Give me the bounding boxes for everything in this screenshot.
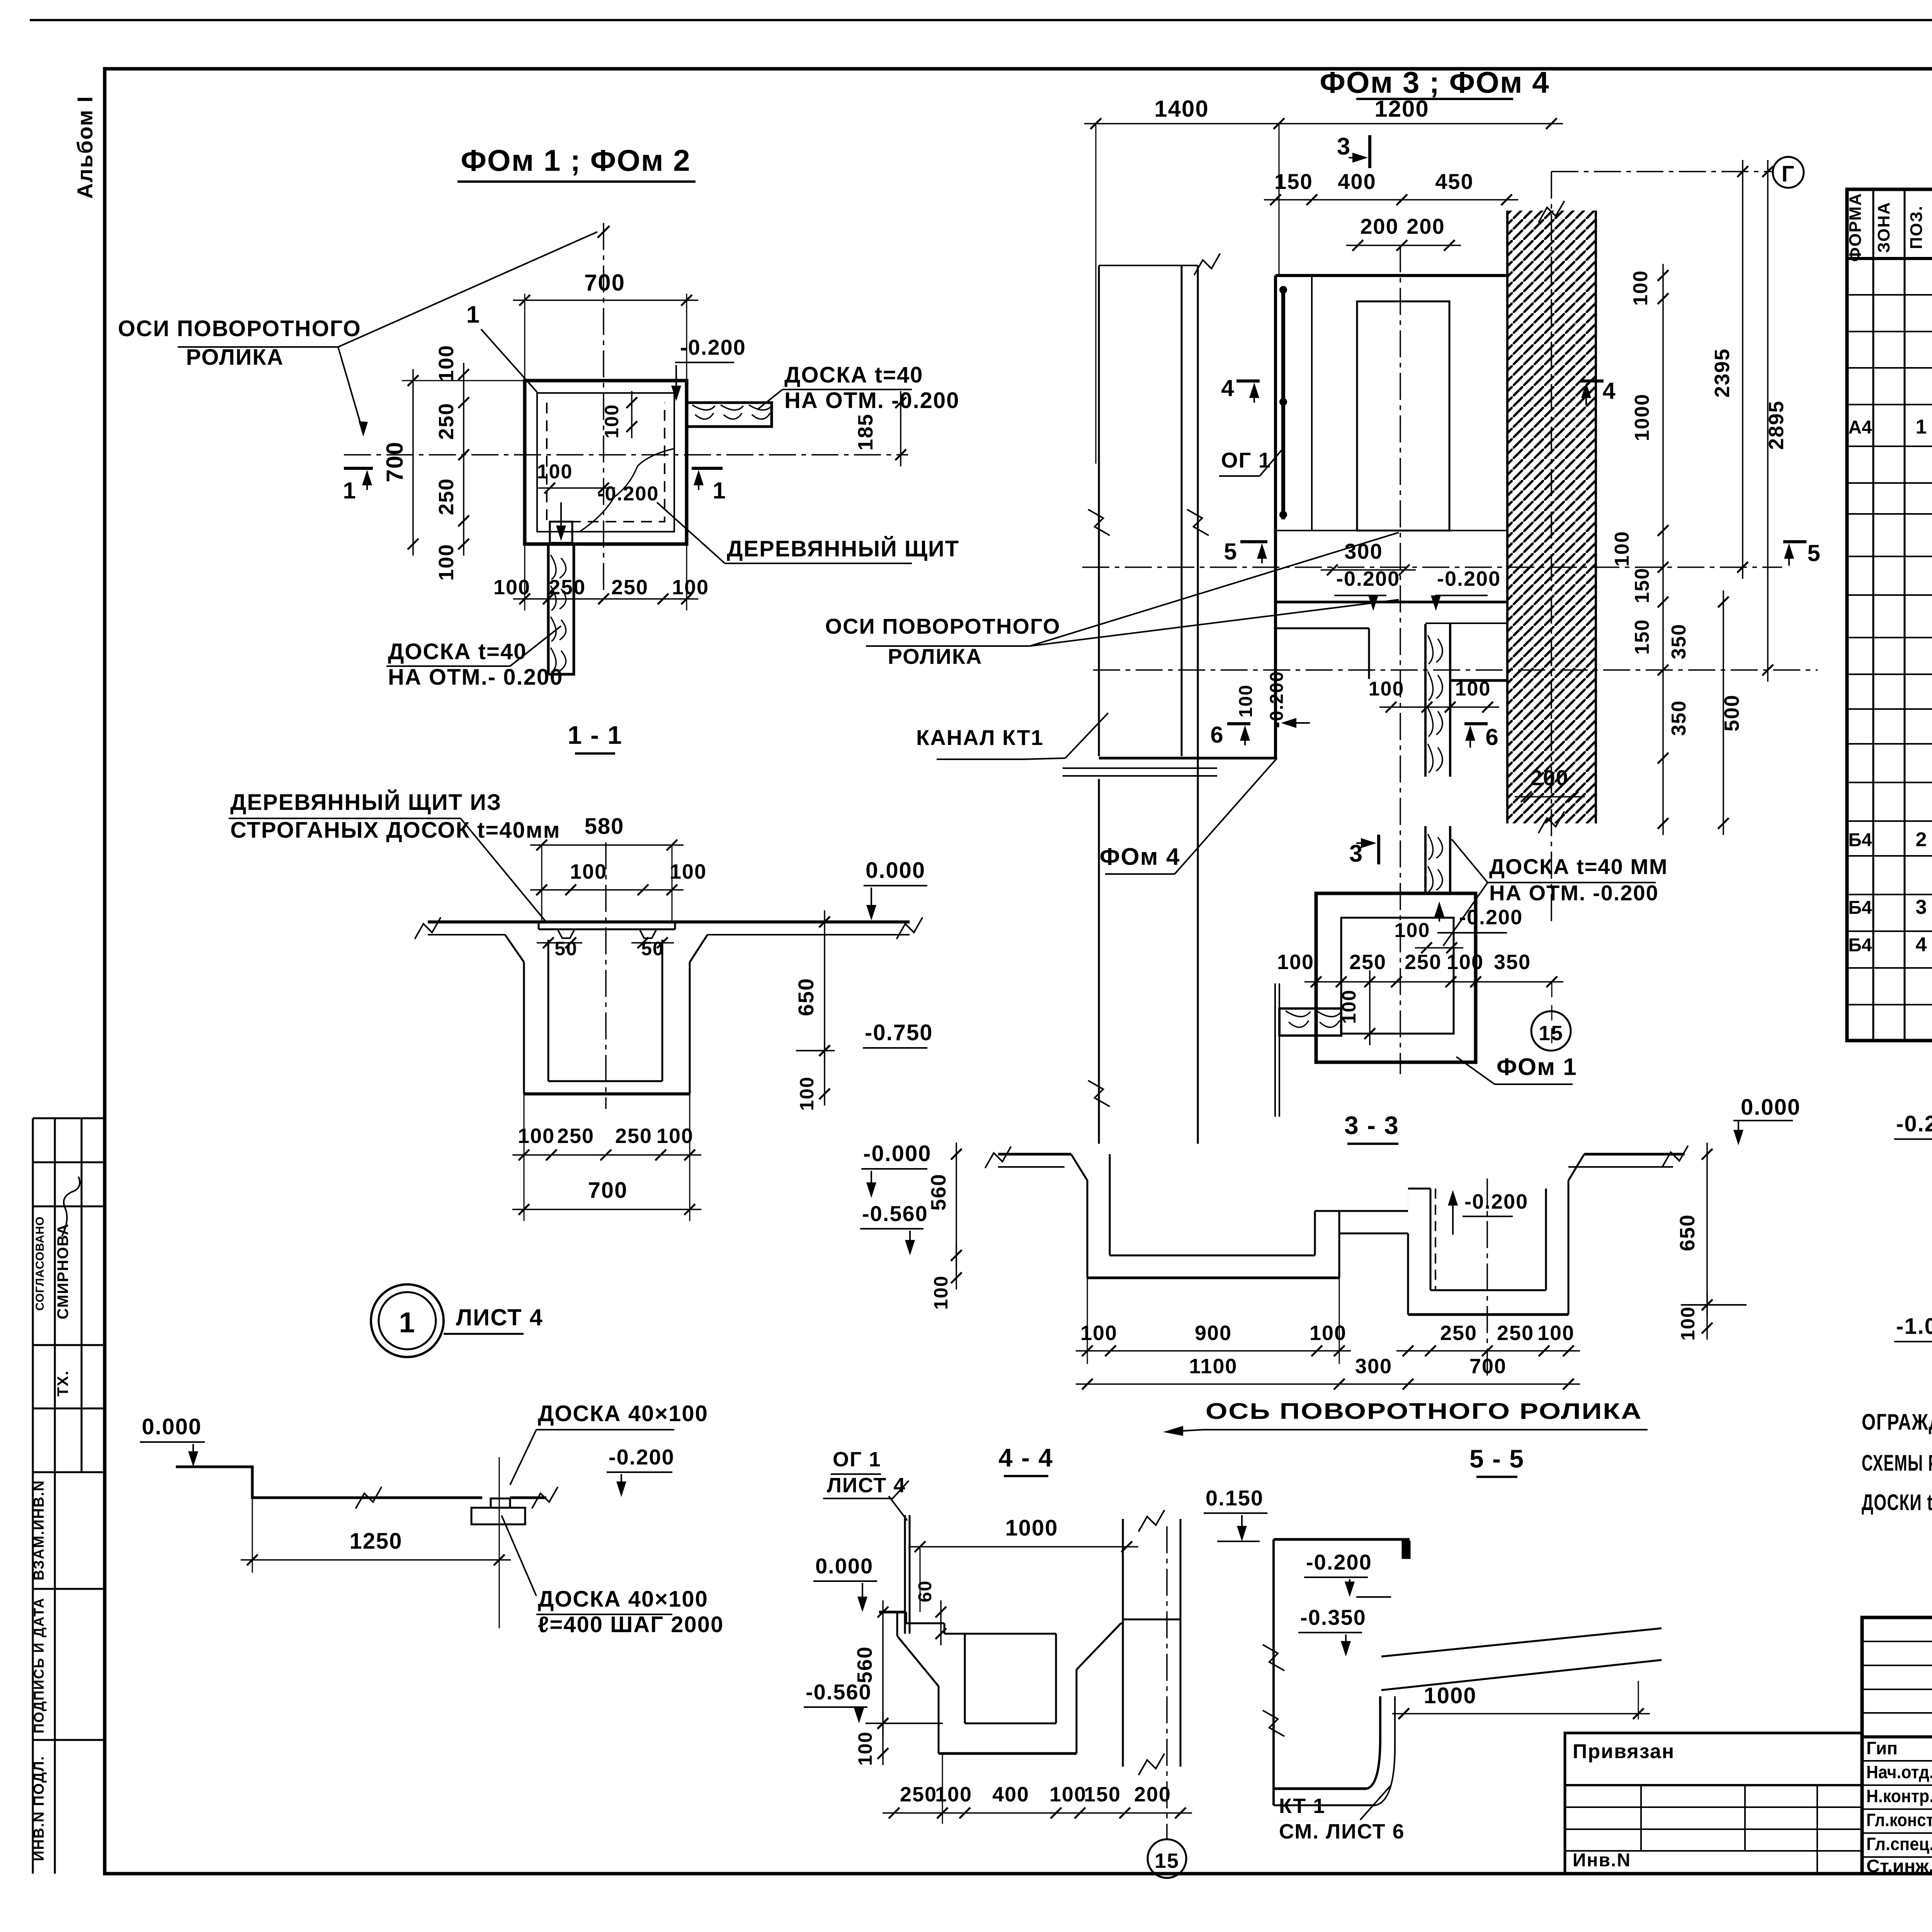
svg-text:ДОСКА 40×100: ДОСКА 40×100 [538,1587,708,1612]
svg-text:1100: 1100 [1189,1355,1237,1378]
svg-text:100: 100 [1338,989,1360,1024]
svg-text:-0.000: -0.000 [863,1141,931,1166]
svg-text:100: 100 [854,1731,876,1765]
svg-text:ОСИ ПОВОРОТНОГО: ОСИ ПОВОРОТНОГО [118,316,361,341]
svg-text:250: 250 [1497,1321,1534,1345]
svg-text:-0.200: -0.200 [597,483,659,505]
svg-text:150: 150 [1084,1783,1121,1806]
svg-text:Г: Г [1782,162,1795,187]
svg-text:100: 100 [672,576,709,599]
svg-text:100: 100 [1611,531,1633,567]
svg-text:100: 100 [518,1124,555,1148]
svg-text:100: 100 [1369,678,1405,700]
svg-text:-0.200: -0.200 [609,1445,675,1469]
svg-text:1: 1 [343,478,356,503]
svg-text:ДЕРЕВЯННЫЙ ЩИТ: ДЕРЕВЯННЫЙ ЩИТ [727,536,959,561]
svg-text:СОГЛАСОВАНО: СОГЛАСОВАНО [34,1216,46,1311]
svg-text:1200: 1200 [1374,96,1429,122]
svg-text:РОЛИКА: РОЛИКА [186,345,284,370]
svg-text:5: 5 [1224,539,1237,565]
svg-text:НА ОТМ. -0.200: НА ОТМ. -0.200 [784,388,959,413]
svg-text:ФОм 4: ФОм 4 [1100,844,1180,870]
svg-text:1000: 1000 [1423,1683,1476,1708]
svg-text:5 - 5: 5 - 5 [1469,1444,1524,1473]
svg-text:-0.350: -0.350 [1300,1605,1366,1629]
svg-text:560: 560 [927,1173,950,1211]
svg-text:ДОСКА t=40: ДОСКА t=40 [388,639,527,664]
svg-text:НА ОТМ. -0.200: НА ОТМ. -0.200 [1489,881,1659,905]
svg-text:200: 200 [1360,214,1398,238]
svg-text:3: 3 [1916,896,1927,918]
svg-text:250: 250 [1349,951,1386,974]
svg-text:ФОм 1 ; ФОм 2: ФОм 1 ; ФОм 2 [461,143,690,177]
svg-text:1: 1 [466,301,480,328]
svg-text:500: 500 [1720,694,1743,731]
svg-text:100: 100 [796,1076,818,1111]
svg-text:250: 250 [900,1783,937,1806]
svg-text:250: 250 [1440,1321,1477,1345]
svg-text:А4: А4 [1848,417,1872,438]
svg-text:580: 580 [585,814,624,839]
svg-text:КАНАЛ КТ1: КАНАЛ КТ1 [916,725,1044,750]
svg-text:0.000: 0.000 [142,1414,202,1439]
svg-text:Б4: Б4 [1848,898,1872,918]
svg-text:350: 350 [1668,700,1690,736]
svg-text:200: 200 [1134,1783,1171,1806]
svg-text:ДОСКА t=40: ДОСКА t=40 [784,362,923,388]
svg-text:350: 350 [1494,951,1531,974]
svg-text:100: 100 [435,544,458,581]
svg-text:ДОСКИ t=40, ПОКАЗАННЫЕ В: ДОСКИ t=40, ПОКАЗАННЫЕ В УЗЛЕ 1, УЧТЕНЫ … [1862,1490,1932,1515]
svg-text:РОЛИКА: РОЛИКА [888,644,983,668]
svg-text:Н.контр.: Н.контр. [1866,1786,1932,1806]
svg-text:ОСИ ПОВОРОТНОГО: ОСИ ПОВОРОТНОГО [825,614,1060,638]
svg-text:4: 4 [1602,378,1616,404]
svg-text:Гип: Гип [1866,1738,1898,1758]
svg-text:100: 100 [935,1783,972,1806]
svg-text:100: 100 [537,461,573,483]
svg-text:ФОм 3 ; ФОм 4: ФОм 3 ; ФОм 4 [1320,65,1549,99]
svg-text:-0.200: -0.200 [1306,1550,1372,1574]
svg-text:ОГ 1: ОГ 1 [1221,448,1271,472]
svg-text:Гл.конст: Гл.конст [1866,1810,1932,1830]
svg-text:100: 100 [1537,1321,1575,1345]
svg-text:ОГ 1: ОГ 1 [833,1448,881,1471]
svg-text:2: 2 [1916,828,1927,851]
svg-text:-0.200: -0.200 [680,335,746,359]
svg-text:Гл.спец.: Гл.спец. [1866,1834,1932,1854]
svg-text:300: 300 [1355,1355,1392,1378]
svg-text:6: 6 [1210,722,1224,748]
svg-text:6: 6 [1485,724,1499,750]
svg-text:4 - 4: 4 - 4 [998,1443,1053,1472]
svg-text:-0.200: -0.200 [1336,567,1400,590]
svg-text:150: 150 [1631,568,1653,604]
svg-text:-0.750: -0.750 [865,1020,933,1045]
svg-text:0.000: 0.000 [1741,1095,1801,1120]
svg-text:СХЕМЫ РАСПОЛОЖЕНИЯ КОРМУЩЕК,: СХЕМЫ РАСПОЛОЖЕНИЯ КОРМУЩЕК, КАНАЛОВ И Ф… [1862,1451,1932,1476]
svg-text:2395: 2395 [1711,348,1734,398]
svg-text:150: 150 [1274,169,1313,194]
svg-text:ИНВ.N ПОДЛ.: ИНВ.N ПОДЛ. [31,1755,47,1861]
svg-text:250: 250 [549,576,586,599]
svg-text:900: 900 [1195,1321,1232,1345]
svg-text:НА ОТМ.- 0.200: НА ОТМ.- 0.200 [388,665,563,690]
svg-text:1: 1 [399,1306,415,1338]
svg-text:3: 3 [1337,133,1351,160]
svg-text:250: 250 [615,1124,652,1148]
svg-text:ДЕРЕВЯННЫЙ ЩИТ ИЗ: ДЕРЕВЯННЫЙ ЩИТ ИЗ [230,790,502,815]
svg-text:Нач.отд.: Нач.отд. [1866,1762,1932,1782]
svg-text:15: 15 [1155,1849,1179,1872]
svg-text:100: 100 [930,1275,952,1310]
svg-text:ВЗАМ.ИНВ.N: ВЗАМ.ИНВ.N [31,1480,47,1581]
svg-text:100: 100 [1080,1321,1117,1345]
svg-text:650: 650 [794,978,818,1016]
svg-text:КТ 1: КТ 1 [1279,1794,1325,1818]
svg-text:-0.200: -0.200 [1437,567,1501,590]
svg-text:100: 100 [1310,1321,1347,1345]
svg-text:100: 100 [670,860,707,883]
svg-text:-0.200: -0.200 [1267,671,1287,728]
svg-text:0.000: 0.000 [866,858,925,883]
svg-text:1250: 1250 [349,1529,402,1554]
svg-text:700: 700 [1469,1355,1507,1378]
svg-text:СМИРНОВА: СМИРНОВА [54,1223,71,1320]
svg-text:100: 100 [1049,1783,1087,1806]
svg-text:СТРОГАНЫХ ДОСОК t=40мм: СТРОГАНЫХ ДОСОК t=40мм [230,818,561,843]
svg-text:400: 400 [992,1783,1029,1806]
svg-text:-0.560: -0.560 [806,1680,872,1704]
svg-text:100: 100 [1677,1306,1699,1340]
svg-text:100: 100 [656,1124,694,1148]
svg-text:250: 250 [611,576,648,599]
svg-text:ПОДПИСЬ И ДАТА: ПОДПИСЬ И ДАТА [31,1597,47,1733]
svg-text:ДОСКА 40×100: ДОСКА 40×100 [538,1401,708,1426]
svg-text:ТХ.: ТХ. [54,1370,71,1396]
svg-text:200: 200 [1406,214,1445,238]
svg-text:100: 100 [493,576,531,599]
svg-text:ЛИСТ 4: ЛИСТ 4 [456,1304,543,1330]
svg-text:560: 560 [853,1646,876,1683]
svg-text:Инв.N: Инв.N [1573,1850,1631,1871]
svg-text:ℓ=400 ШАГ 2000: ℓ=400 ШАГ 2000 [538,1612,724,1637]
svg-text:150: 150 [1631,619,1653,655]
svg-text:450: 450 [1435,169,1473,194]
svg-text:100: 100 [1447,951,1484,974]
svg-text:Б4: Б4 [1848,935,1872,956]
svg-text:ОГРАЖДЕНИЕ ОГ1 УЧТЕНО В СП: ОГРАЖДЕНИЕ ОГ1 УЧТЕНО В СПЕЦИФИКАЦИИ НА … [1862,1410,1932,1435]
svg-text:-1.050: -1.050 [1896,1314,1932,1339]
svg-text:250: 250 [1405,951,1442,974]
svg-text:ЗОНА: ЗОНА [1874,202,1893,253]
svg-text:0.000: 0.000 [815,1554,873,1578]
svg-text:650: 650 [1676,1214,1699,1251]
svg-text:250: 250 [557,1124,594,1148]
svg-text:250: 250 [435,478,458,515]
svg-text:ФОм 1: ФОм 1 [1497,1054,1577,1080]
svg-text:700: 700 [588,1178,628,1203]
svg-text:Ст.инж.: Ст.инж. [1866,1856,1932,1876]
svg-text:-0.200: -0.200 [1464,1190,1528,1213]
svg-text:100: 100 [1629,270,1652,306]
svg-text:Б4: Б4 [1848,830,1872,850]
svg-text:ДОСКА t=40 ММ: ДОСКА t=40 ММ [1489,854,1668,879]
svg-text:100: 100 [1455,678,1491,700]
svg-text:4: 4 [1916,934,1927,956]
svg-text:200: 200 [1530,765,1568,790]
svg-text:100: 100 [601,404,622,438]
svg-text:100: 100 [1236,684,1256,718]
svg-text:1 - 1: 1 - 1 [568,721,622,749]
svg-text:Альбом I: Альбом I [73,95,97,199]
svg-text:-0.200: -0.200 [1896,1111,1932,1136]
svg-text:250: 250 [435,403,458,440]
svg-text:4: 4 [1221,375,1235,401]
svg-text:1: 1 [713,478,726,503]
svg-text:СМ. ЛИСТ 6: СМ. ЛИСТ 6 [1279,1820,1405,1843]
svg-text:100: 100 [1395,919,1430,942]
svg-text:1000: 1000 [1005,1515,1058,1541]
svg-text:1: 1 [1916,416,1927,438]
svg-text:100: 100 [435,345,458,382]
svg-text:-0.560: -0.560 [862,1201,928,1226]
svg-text:ЛИСТ 4: ЛИСТ 4 [827,1474,906,1497]
svg-text:ФОРМА: ФОРМА [1846,193,1865,262]
svg-text:ПОЗ.: ПОЗ. [1907,205,1926,249]
svg-text:15: 15 [1539,1022,1563,1045]
svg-text:700: 700 [382,441,408,482]
svg-text:185: 185 [854,413,877,451]
svg-text:60: 60 [915,1580,935,1602]
svg-text:1400: 1400 [1154,96,1209,122]
svg-text:350: 350 [1668,624,1690,660]
svg-text:ОСЬ ПОВОРОТНОГО РОЛИКА: ОСЬ ПОВОРОТНОГО РОЛИКА [1206,1399,1642,1424]
svg-text:0.150: 0.150 [1206,1486,1264,1510]
svg-text:100: 100 [1277,951,1314,974]
svg-text:400: 400 [1338,169,1376,194]
svg-text:Привязан: Привязан [1573,1740,1675,1763]
svg-text:1000: 1000 [1631,393,1653,441]
svg-text:2895: 2895 [1765,400,1788,450]
svg-text:100: 100 [570,860,607,883]
svg-text:700: 700 [584,270,625,296]
svg-text:5: 5 [1807,540,1821,566]
svg-text:3 - 3: 3 - 3 [1344,1111,1399,1139]
